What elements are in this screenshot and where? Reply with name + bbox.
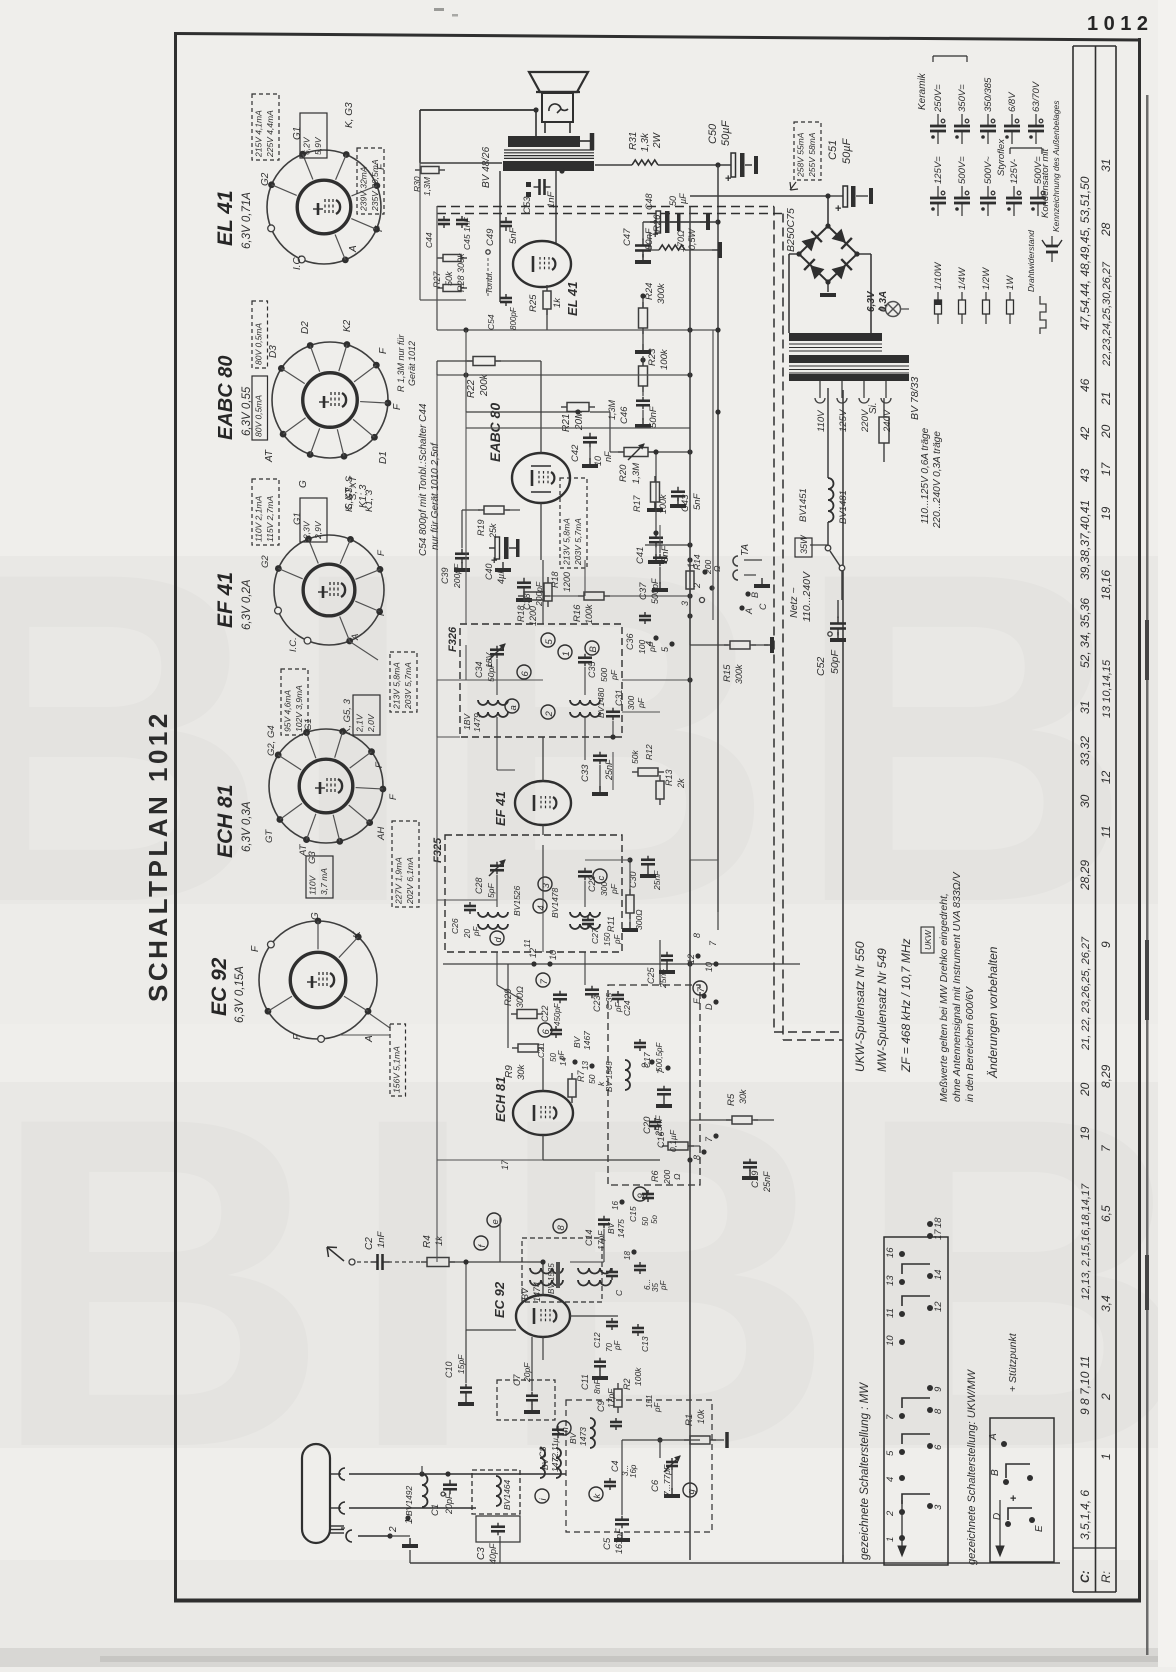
svg-text:BV1481: BV1481 — [838, 490, 849, 524]
svg-text:1473: 1473 — [578, 1427, 588, 1446]
svg-text:12: 12 — [528, 948, 538, 958]
svg-text:4: 4 — [644, 641, 654, 646]
svg-text:Gerät 1012: Gerät 1012 — [407, 341, 417, 386]
svg-text:R15: R15 — [722, 664, 733, 682]
svg-text:6,3V 0,55: 6,3V 0,55 — [241, 386, 253, 436]
svg-text:25nF: 25nF — [762, 1171, 772, 1193]
svg-text:R17: R17 — [632, 494, 642, 512]
svg-text:R5: R5 — [726, 1093, 737, 1106]
svg-text:C10: C10 — [444, 1361, 454, 1378]
svg-text:C13: C13 — [640, 1336, 650, 1352]
svg-text:K2: K2 — [342, 319, 353, 332]
svg-text:3,4: 3,4 — [1099, 1295, 1113, 1312]
svg-text:2: 2 — [544, 711, 555, 718]
svg-text:13 10,14,15: 13 10,14,15 — [1101, 659, 1113, 718]
svg-text:C21: C21 — [536, 1042, 546, 1058]
svg-text:500,5pF: 500,5pF — [655, 1042, 664, 1072]
svg-text:47,54,44, 48,49,45, 53,51,50: 47,54,44, 48,49,45, 53,51,50 — [1078, 176, 1092, 330]
svg-text:BV1526: BV1526 — [512, 885, 522, 916]
svg-text:pF: pF — [613, 1340, 622, 1351]
svg-text:C16: C16 — [656, 1131, 666, 1148]
svg-text:156V 5,1mA: 156V 5,1mA — [392, 1046, 402, 1093]
svg-text:7: 7 — [539, 979, 550, 985]
svg-text:C40: C40 — [484, 563, 494, 580]
svg-text:7: 7 — [885, 1414, 896, 1420]
svg-text:12: 12 — [933, 1301, 944, 1312]
svg-text:EC 92: EC 92 — [492, 1281, 507, 1318]
svg-text:150: 150 — [603, 932, 612, 946]
svg-text:c: c — [596, 876, 607, 881]
svg-text:d: d — [493, 937, 504, 943]
svg-text:R20: R20 — [618, 464, 629, 482]
svg-text:80V 0,5mA: 80V 0,5mA — [254, 395, 264, 437]
svg-text:R4: R4 — [422, 1235, 433, 1248]
svg-text:pF: pF — [636, 697, 646, 709]
svg-text:R9: R9 — [504, 1065, 515, 1078]
svg-text:pF: pF — [613, 934, 622, 945]
svg-text:4: 4 — [536, 905, 547, 910]
svg-text:C39: C39 — [440, 567, 450, 584]
svg-text:F: F — [250, 945, 261, 952]
svg-text:50µF: 50µF — [720, 119, 732, 146]
svg-text:12: 12 — [1099, 770, 1113, 784]
svg-text:202V 6,1mA: 202V 6,1mA — [405, 857, 415, 905]
svg-text:G: G — [310, 912, 321, 920]
svg-text:A: A — [988, 1433, 999, 1441]
svg-text:BV1478: BV1478 — [550, 887, 560, 918]
svg-text:R 1,3M nur für: R 1,3M nur für — [396, 333, 406, 392]
svg-text:50: 50 — [641, 1217, 650, 1226]
svg-text:20pF: 20pF — [444, 1493, 454, 1515]
svg-text:20: 20 — [1078, 1082, 1092, 1097]
svg-text:pF: pF — [659, 1280, 668, 1291]
svg-text:5: 5 — [544, 639, 555, 645]
svg-text:200k: 200k — [479, 373, 490, 397]
svg-text:2,9V: 2,9V — [313, 520, 323, 540]
svg-text:B: B — [990, 1469, 1001, 1476]
svg-text:B250C75: B250C75 — [785, 208, 797, 252]
svg-text:+ Stützpunkt: + Stützpunkt — [1007, 1332, 1019, 1392]
svg-text:+: + — [835, 203, 841, 215]
svg-text:100k: 100k — [659, 348, 670, 370]
svg-text:1,3M: 1,3M — [631, 463, 642, 484]
svg-text:203V 5,7mA: 203V 5,7mA — [573, 518, 583, 566]
svg-text:C42: C42 — [570, 444, 581, 462]
svg-text:8: 8 — [556, 1225, 567, 1231]
svg-text:50: 50 — [668, 196, 678, 206]
svg-text:11: 11 — [885, 1308, 896, 1318]
svg-text:1012: 1012 — [1087, 13, 1154, 35]
svg-text:95V 4,6mA: 95V 4,6mA — [283, 690, 293, 732]
svg-text:18V: 18V — [484, 652, 494, 668]
svg-text:Meßwerte gelten bei MW Drehko: Meßwerte gelten bei MW Drehko eingedreht… — [938, 893, 950, 1102]
svg-text:300: 300 — [626, 696, 636, 710]
svg-text:10: 10 — [704, 962, 714, 972]
svg-text:G2, G4: G2, G4 — [266, 725, 277, 756]
svg-text:R28 300k: R28 300k — [456, 253, 466, 292]
svg-text:C50: C50 — [707, 123, 719, 144]
svg-text:SCHALTPLAN 1012: SCHALTPLAN 1012 — [143, 710, 173, 1002]
svg-text:C54 800pf mit Tonbl.:Schalter: C54 800pf mit Tonbl.:Schalter C44 — [418, 403, 429, 556]
svg-text:2: 2 — [885, 1510, 896, 1517]
svg-text:13: 13 — [581, 1061, 590, 1070]
svg-text:235V 30,5mA: 235V 30,5mA — [370, 159, 380, 212]
svg-text:F: F — [374, 225, 385, 232]
svg-text:8: 8 — [692, 933, 702, 938]
svg-text:C25: C25 — [646, 966, 656, 984]
svg-text:AH: AH — [376, 827, 387, 841]
svg-text:1nF: 1nF — [546, 190, 557, 208]
svg-text:EL 41: EL 41 — [565, 282, 580, 316]
svg-text:46: 46 — [1078, 378, 1092, 392]
svg-text:12,13, 2,15,16,18,14,17: 12,13, 2,15,16,18,14,17 — [1080, 1183, 1092, 1300]
svg-text:31: 31 — [1099, 159, 1113, 172]
svg-text:227V 1,9mA: 227V 1,9mA — [394, 857, 404, 905]
svg-text:F: F — [378, 347, 389, 354]
svg-text:1k: 1k — [552, 297, 563, 308]
svg-text:2: 2 — [692, 583, 702, 589]
svg-text:6,3V 0,15A: 6,3V 0,15A — [234, 966, 246, 1023]
svg-text:350/385: 350/385 — [983, 77, 994, 112]
svg-text:ohne Antennensignal mit Instru: ohne Antennensignal mit Instrument UVA 8… — [951, 871, 963, 1102]
svg-text:8nF: 8nF — [592, 1379, 602, 1394]
svg-text:C3: C3 — [476, 1547, 487, 1560]
svg-text:C23: C23 — [592, 995, 602, 1012]
svg-text:F: F — [292, 1033, 303, 1040]
svg-text:125V-: 125V- — [1009, 159, 1020, 184]
svg-text:18: 18 — [933, 1217, 944, 1228]
svg-text:1/2W: 1/2W — [981, 267, 992, 290]
svg-text:39,38,37,40,41: 39,38,37,40,41 — [1078, 500, 1092, 580]
svg-text:pF: pF — [472, 926, 481, 937]
svg-text:µF: µF — [678, 193, 688, 204]
svg-text:UKW: UKW — [923, 929, 933, 950]
svg-text:50µF: 50µF — [841, 137, 853, 164]
svg-text:255V 58mA: 255V 58mA — [807, 132, 817, 178]
svg-text:11: 11 — [522, 939, 532, 948]
svg-text:110V 2,1mA: 110V 2,1mA — [254, 496, 264, 542]
svg-text:1475: 1475 — [616, 1219, 626, 1238]
svg-text:C24: C24 — [622, 1000, 632, 1016]
svg-text:C17: C17 — [642, 1052, 652, 1068]
svg-text:1/4W: 1/4W — [957, 267, 968, 290]
svg-text:1nF: 1nF — [376, 1230, 387, 1248]
svg-text:C28: C28 — [474, 877, 484, 894]
svg-text:C15: C15 — [628, 1206, 638, 1222]
svg-text:C47: C47 — [622, 228, 633, 246]
svg-text:gezeichnete Schalterstellung:: gezeichnete Schalterstellung: UKW/MW — [966, 1368, 978, 1565]
svg-text:B: B — [750, 592, 760, 598]
svg-text:1W: 1W — [1005, 275, 1016, 290]
svg-text:Drahtwiderstand: Drahtwiderstand — [1026, 230, 1036, 292]
svg-text:30k: 30k — [738, 1089, 748, 1104]
svg-text:100k: 100k — [584, 604, 594, 624]
svg-text:EL 41: EL 41 — [214, 190, 237, 246]
svg-text:D: D — [704, 1003, 714, 1010]
svg-text:BV: BV — [606, 1221, 616, 1234]
svg-text:2k: 2k — [676, 778, 686, 789]
svg-text:11: 11 — [1099, 826, 1113, 838]
svg-text:2: 2 — [1099, 1393, 1113, 1401]
svg-text:1200: 1200 — [528, 606, 538, 626]
svg-text:115V 2,7mA: 115V 2,7mA — [265, 496, 275, 542]
svg-text:10: 10 — [885, 1335, 896, 1346]
svg-text:500V~: 500V~ — [983, 156, 994, 184]
svg-text:220...240V 0,3A träge: 220...240V 0,3A träge — [932, 431, 943, 529]
svg-text:C53: C53 — [522, 196, 533, 214]
svg-text:16: 16 — [611, 1201, 620, 1210]
svg-text:pF: pF — [609, 883, 619, 895]
svg-text:+: + — [652, 229, 658, 241]
svg-text:6,3V 0,3A: 6,3V 0,3A — [241, 801, 253, 852]
svg-text:2: 2 — [388, 1526, 399, 1533]
svg-text:Kondensator mit: Kondensator mit — [1040, 148, 1051, 218]
svg-text:30k: 30k — [516, 1063, 527, 1080]
svg-text:BV 78/33: BV 78/33 — [909, 377, 921, 420]
svg-text:R24: R24 — [644, 283, 655, 300]
svg-text:G: G — [298, 480, 309, 488]
svg-text:4: 4 — [885, 1477, 896, 1482]
svg-text:1/10W: 1/10W — [933, 262, 944, 290]
svg-text:3,5,1,4, 6: 3,5,1,4, 6 — [1078, 1490, 1092, 1540]
svg-text:R7: R7 — [576, 1070, 586, 1082]
svg-text:Tonbl.: Tonbl. — [484, 271, 494, 294]
svg-text:50k: 50k — [630, 750, 640, 764]
svg-text:BV 1535: BV 1535 — [547, 1263, 556, 1294]
svg-text:1BV: 1BV — [462, 713, 472, 730]
svg-text:C33: C33 — [580, 764, 591, 782]
svg-text:D2: D2 — [300, 321, 311, 334]
svg-text:AT: AT — [264, 449, 275, 463]
svg-text:g: g — [686, 1489, 697, 1495]
svg-text:9: 9 — [933, 1386, 944, 1392]
svg-text:C26: C26 — [450, 918, 460, 934]
svg-text:6: 6 — [541, 1029, 552, 1035]
svg-text:D3: D3 — [268, 345, 279, 358]
svg-text:2W: 2W — [652, 131, 663, 149]
svg-text:GT: GT — [264, 829, 275, 843]
svg-text:215V 4,1mA: 215V 4,1mA — [254, 110, 264, 158]
svg-text:EC 92: EC 92 — [208, 957, 231, 1016]
svg-text:C51: C51 — [827, 140, 839, 160]
svg-text:15pF: 15pF — [456, 1354, 466, 1374]
svg-text:6,2V: 6,2V — [302, 136, 312, 155]
svg-text:C12: C12 — [592, 1332, 602, 1348]
svg-text:40pF: 40pF — [488, 1543, 498, 1564]
svg-text:C41: C41 — [635, 547, 646, 564]
svg-text:6,3V 0,71A: 6,3V 0,71A — [241, 192, 253, 249]
svg-text:500V=: 500V= — [957, 156, 968, 184]
svg-text:C27: C27 — [590, 928, 600, 944]
svg-text:5pF: 5pF — [486, 883, 496, 898]
svg-text:0,5W: 0,5W — [687, 227, 697, 250]
svg-text:28: 28 — [1099, 222, 1113, 237]
svg-text:C49: C49 — [485, 228, 496, 246]
svg-text:BV: BV — [572, 1035, 582, 1048]
svg-text:12: 12 — [686, 954, 696, 964]
svg-text:350V=: 350V= — [957, 84, 968, 112]
svg-text:C9: C9 — [596, 1400, 606, 1412]
svg-text:BV 1545: BV 1545 — [605, 1061, 614, 1092]
svg-text:TA: TA — [740, 544, 751, 556]
svg-text:16p: 16p — [629, 1464, 638, 1478]
svg-text:25nF: 25nF — [652, 870, 662, 891]
svg-text:5o: 5o — [650, 1215, 659, 1224]
svg-text:1,3M: 1,3M — [422, 176, 432, 196]
svg-text:300Ω: 300Ω — [634, 909, 644, 930]
svg-text:C: C — [758, 603, 768, 610]
svg-text:2,1V: 2,1V — [355, 713, 365, 733]
svg-text:110...240V: 110...240V — [801, 571, 813, 622]
svg-text:R19: R19 — [476, 519, 486, 536]
svg-text:I.C.: I.C. — [288, 637, 299, 652]
svg-text:10k: 10k — [696, 1409, 706, 1424]
svg-text:R2: R2 — [622, 1378, 632, 1390]
svg-text:C6: C6 — [650, 1479, 661, 1492]
svg-text:1: 1 — [686, 563, 696, 568]
svg-text:F326: F326 — [447, 626, 459, 652]
svg-text:A: A — [744, 608, 754, 615]
svg-text:42: 42 — [1078, 426, 1092, 440]
svg-text:e: e — [490, 1219, 501, 1224]
svg-text:BV1492: BV1492 — [404, 1485, 414, 1516]
svg-text:nF: nF — [603, 451, 613, 462]
svg-text:K1, 3: K1, 3 — [364, 489, 375, 512]
svg-text:9 8 7,10 11: 9 8 7,10 11 — [1078, 1356, 1092, 1415]
svg-text:R13: R13 — [664, 769, 674, 786]
svg-text:gezeichnete Schalterstellung :: gezeichnete Schalterstellung : MW — [859, 1382, 871, 1560]
svg-text:R11: R11 — [606, 916, 616, 932]
svg-text:0,1µF: 0,1µF — [668, 1129, 678, 1152]
svg-text:BV1480: BV1480 — [596, 687, 606, 718]
svg-text:E: E — [1034, 1525, 1045, 1532]
svg-text:C35: C35 — [587, 660, 597, 678]
svg-text:200: 200 — [662, 1170, 672, 1185]
svg-text:213V 5,8mA: 213V 5,8mA — [392, 662, 402, 710]
svg-text:1: 1 — [885, 1537, 896, 1542]
svg-text:K, G3: K, G3 — [344, 102, 355, 128]
svg-text:F: F — [392, 403, 403, 410]
svg-text:K, G5, 3: K, G5, 3 — [342, 698, 353, 734]
svg-text:500: 500 — [599, 668, 609, 682]
svg-text:C22: C22 — [540, 1005, 550, 1022]
svg-text:80V 0,5mA: 80V 0,5mA — [254, 323, 264, 365]
svg-text:R25: R25 — [528, 294, 539, 312]
svg-text:C2: C2 — [364, 1237, 375, 1250]
svg-text:C1: C1 — [430, 1504, 441, 1516]
svg-text:C37: C37 — [638, 582, 649, 600]
svg-text:a: a — [508, 705, 519, 710]
svg-text:50pF: 50pF — [829, 649, 841, 674]
svg-text:63/70V: 63/70V — [1031, 80, 1042, 112]
svg-text:200pF: 200pF — [452, 563, 462, 589]
svg-text:22,23,24,25,30,26,27: 22,23,24,25,30,26,27 — [1101, 261, 1113, 367]
svg-text:Styroflex: Styroflex — [996, 138, 1007, 176]
svg-text:nur für Gerät 1010 2,5nf: nur für Gerät 1010 2,5nf — [430, 442, 441, 550]
svg-text:A: A — [364, 1035, 375, 1043]
svg-text:300k: 300k — [734, 664, 744, 684]
svg-text:8: 8 — [692, 1155, 702, 1160]
svg-text:Änderungen vorbehalten: Änderungen vorbehalten — [986, 946, 1000, 1079]
svg-text:G2: G2 — [260, 172, 271, 186]
svg-text:BV1464: BV1464 — [502, 1479, 512, 1510]
svg-text:110...125V 0,6A träge: 110...125V 0,6A träge — [920, 427, 931, 524]
svg-text:C46: C46 — [619, 406, 630, 424]
svg-text:C34: C34 — [474, 661, 484, 678]
svg-text:300: 300 — [599, 882, 609, 896]
svg-text:16: 16 — [885, 1247, 896, 1258]
svg-text:E: E — [692, 997, 702, 1004]
svg-text:43: 43 — [1078, 468, 1092, 482]
svg-text:C4: C4 — [610, 1460, 620, 1472]
svg-text:+: + — [725, 173, 731, 185]
svg-text:102V 3,9mA: 102V 3,9mA — [294, 685, 304, 732]
svg-text:D: D — [992, 1513, 1003, 1520]
svg-text:BV1451: BV1451 — [798, 488, 809, 522]
svg-text:30: 30 — [1078, 794, 1092, 808]
svg-text:D1: D1 — [378, 451, 389, 464]
svg-text:239V 32mA: 239V 32mA — [359, 166, 369, 212]
svg-text:21: 21 — [1099, 392, 1113, 406]
svg-text:R6: R6 — [650, 1170, 660, 1182]
svg-text:13: 13 — [885, 1275, 896, 1286]
svg-text:31: 31 — [1078, 701, 1092, 714]
svg-text:14: 14 — [933, 1269, 944, 1280]
svg-text:R16: R16 — [572, 604, 583, 622]
svg-text:R22: R22 — [466, 379, 477, 398]
svg-text:800pF: 800pF — [509, 306, 518, 330]
svg-text:C31: C31 — [614, 689, 624, 706]
svg-text:100k: 100k — [633, 1367, 643, 1386]
svg-text:G2: G2 — [260, 555, 271, 568]
svg-text:7: 7 — [696, 987, 707, 993]
svg-text:C44: C44 — [424, 232, 434, 248]
svg-text:18,16: 18,16 — [1099, 570, 1113, 600]
svg-text:Netz ~: Netz ~ — [788, 587, 800, 618]
svg-text:5nF: 5nF — [660, 544, 671, 562]
svg-text:17: 17 — [500, 1159, 510, 1170]
svg-text:B: B — [588, 646, 599, 653]
svg-text:R21: R21 — [561, 414, 572, 432]
svg-text:EF 41: EF 41 — [214, 572, 237, 628]
svg-text:0,3A: 0,3A — [878, 291, 889, 312]
svg-text:5nF: 5nF — [692, 492, 703, 510]
svg-text:170Ω: 170Ω — [676, 230, 686, 252]
svg-text:20: 20 — [463, 929, 472, 939]
svg-text:1: 1 — [561, 651, 572, 656]
svg-text:1k: 1k — [434, 1235, 445, 1246]
svg-text:3: 3 — [933, 1504, 944, 1510]
svg-text:C: C — [614, 1289, 624, 1296]
svg-text:17: 17 — [933, 1229, 944, 1240]
svg-text:110V: 110V — [816, 409, 827, 432]
svg-text:203V 5,7mA: 203V 5,7mA — [403, 662, 413, 710]
svg-text:20: 20 — [1099, 424, 1113, 439]
svg-text:19: 19 — [1099, 506, 1113, 520]
svg-text:6,3V: 6,3V — [866, 290, 877, 312]
svg-text:6,5: 6,5 — [1099, 1205, 1113, 1222]
svg-text:17pF: 17pF — [606, 1388, 616, 1408]
svg-text:C11: C11 — [580, 1374, 590, 1390]
svg-text:C54: C54 — [486, 314, 496, 330]
svg-text:35W: 35W — [799, 534, 809, 554]
svg-text:Keramik: Keramik — [917, 72, 928, 110]
svg-text:MW-Spulensatz Nr 549: MW-Spulensatz Nr 549 — [875, 948, 889, 1072]
svg-text:225V 4,4mA: 225V 4,4mA — [265, 110, 275, 158]
svg-text:EABC 80: EABC 80 — [215, 356, 237, 440]
svg-text:6: 6 — [933, 1444, 944, 1450]
svg-text:BV 48/26: BV 48/26 — [481, 146, 492, 188]
